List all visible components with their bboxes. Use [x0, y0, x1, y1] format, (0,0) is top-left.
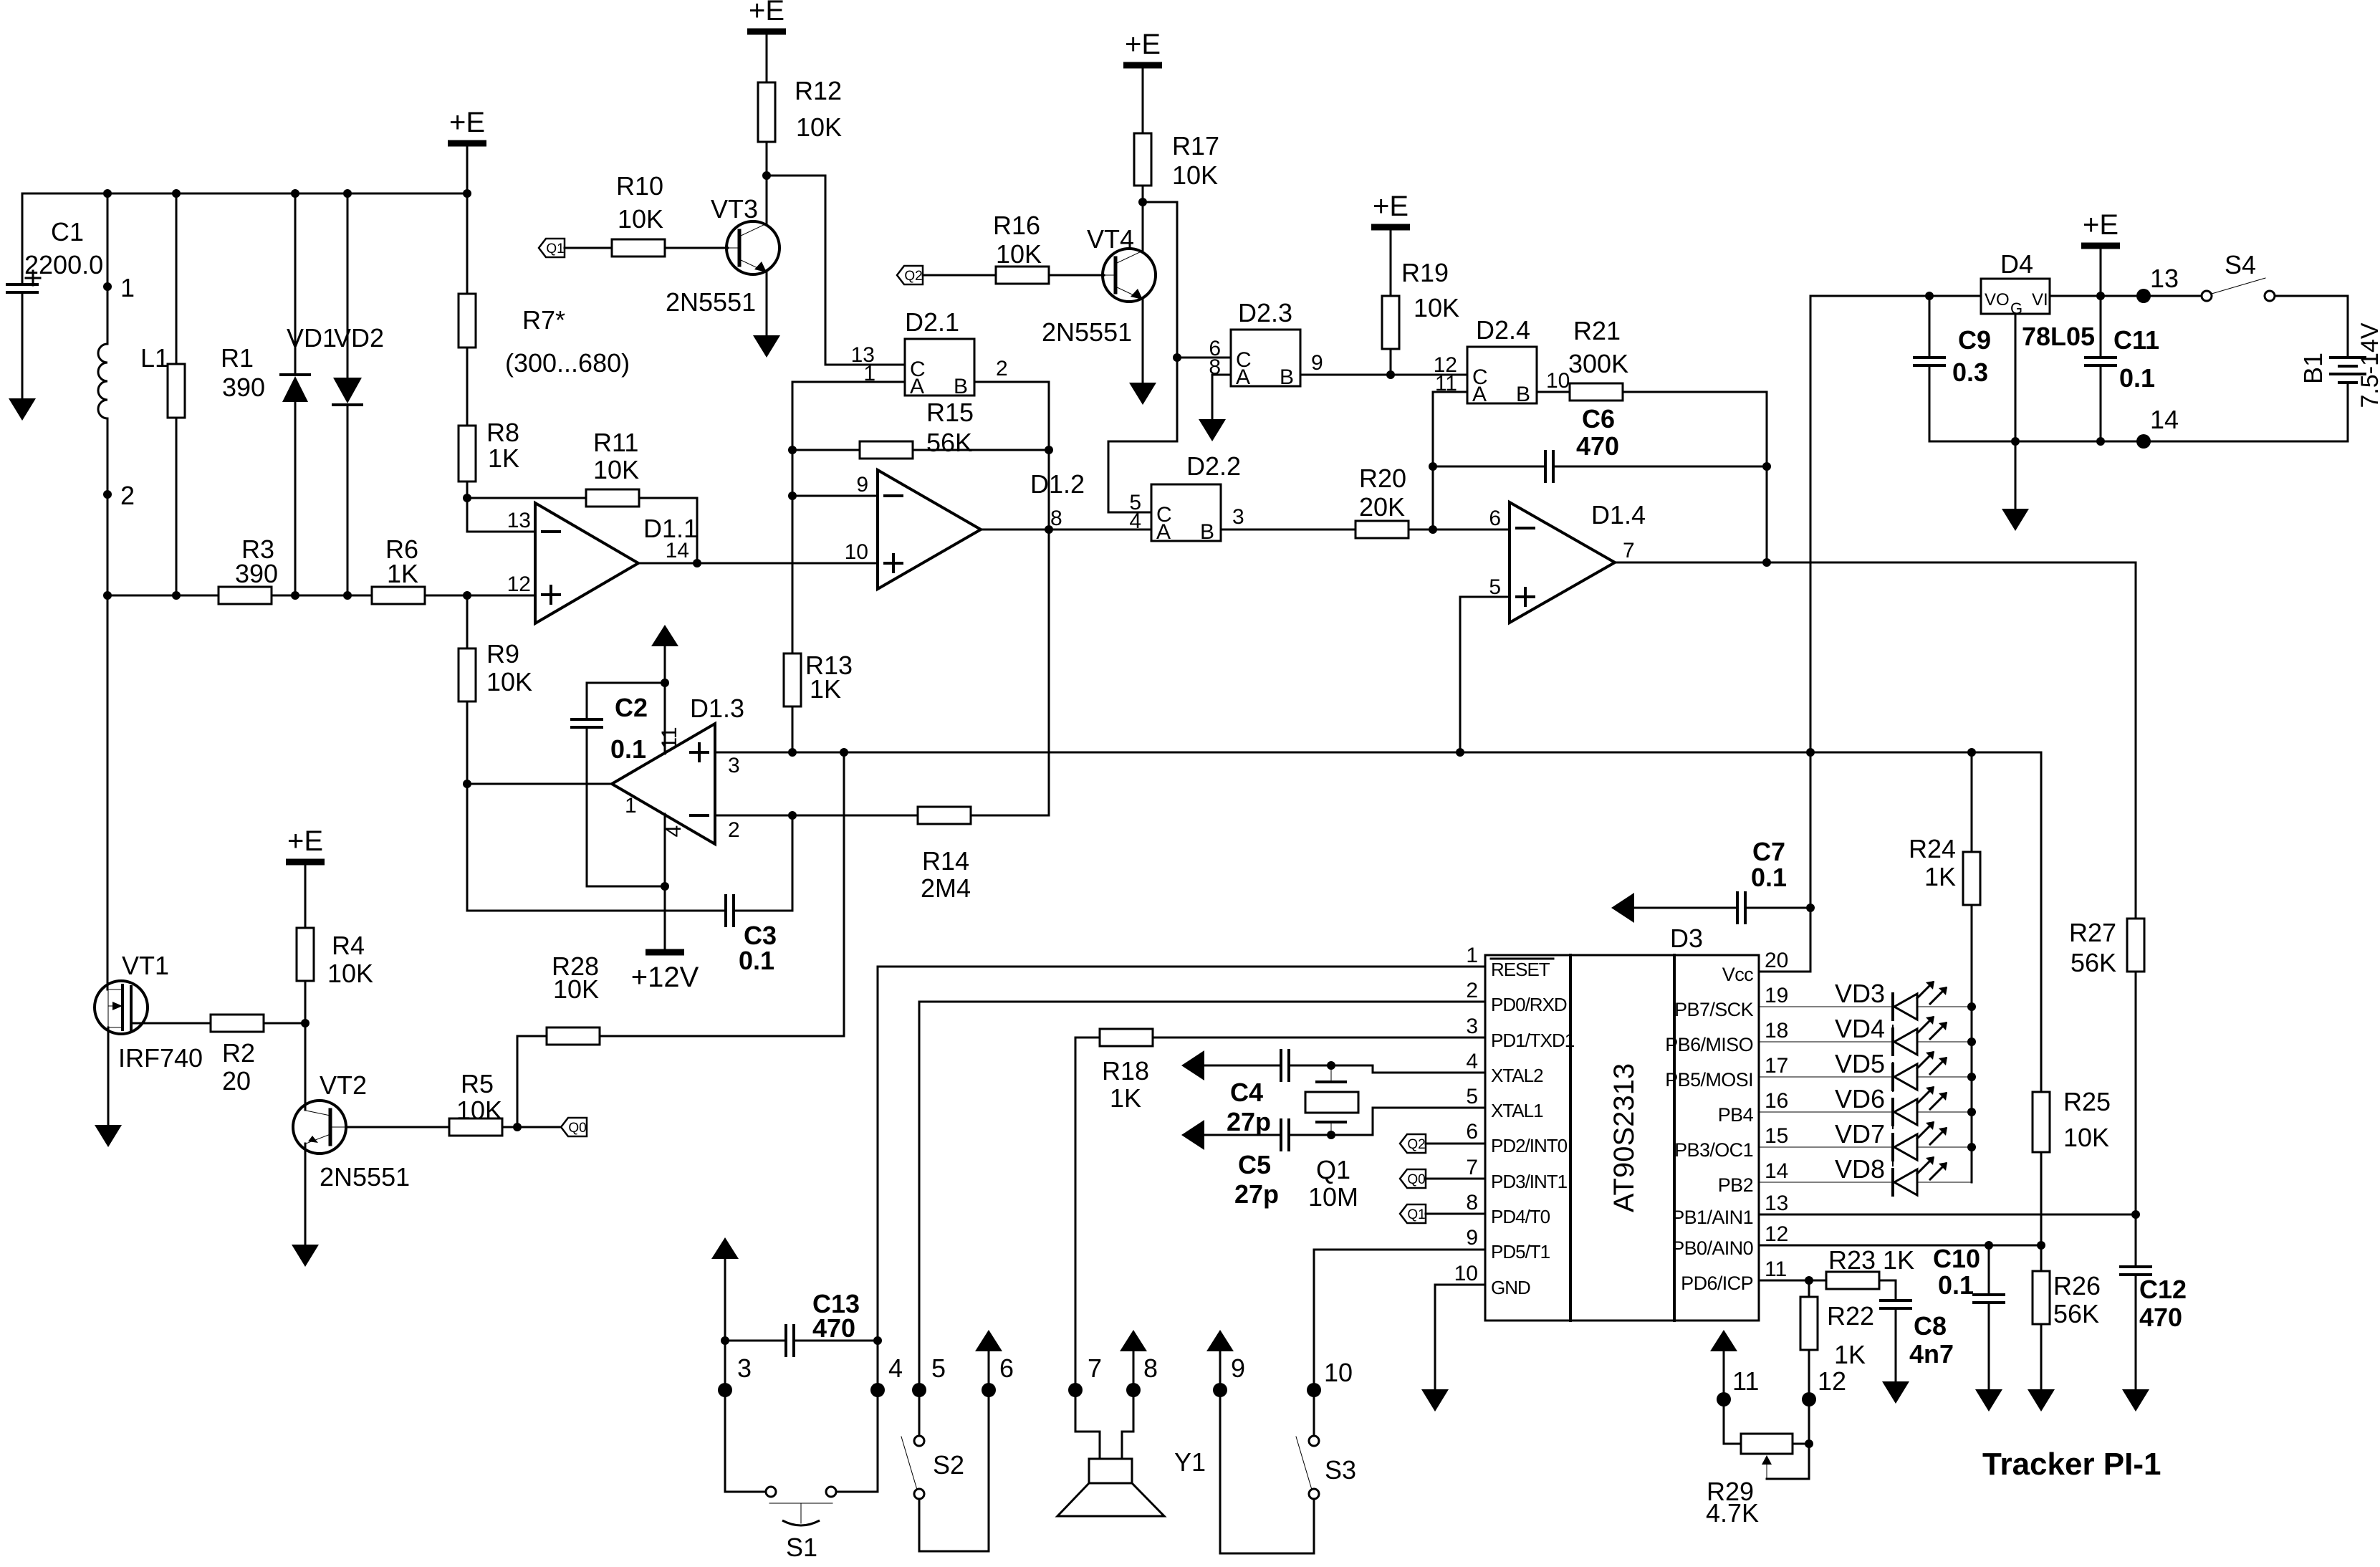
common arrow at C5 — [1181, 1120, 1204, 1150]
resistor R2 — [211, 1015, 264, 1032]
LED VD6 — [1759, 1111, 1893, 1113]
svg-text:2N5551: 2N5551 — [666, 287, 756, 317]
wire rail left — [107, 595, 219, 597]
svg-text:PD6/ICP: PD6/ICP — [1681, 1273, 1753, 1294]
switch S3 — [1309, 1436, 1319, 1446]
junction row12 R25 R26 — [2037, 1241, 2045, 1250]
svg-text:2: 2 — [120, 481, 135, 510]
svg-text:78L05: 78L05 — [2022, 322, 2095, 351]
resistor R1 — [168, 364, 185, 418]
ground under VT4 — [1129, 383, 1156, 405]
wire D3 GND to ground — [1435, 1285, 1485, 1389]
svg-text:VT3: VT3 — [711, 194, 758, 224]
wire C8 to ground — [1895, 1308, 1897, 1381]
wire D1.4 noninverting input — [1460, 597, 1510, 752]
svg-text:470: 470 — [2139, 1303, 2182, 1332]
capacitor C5 — [1280, 1120, 1282, 1150]
potentiometer R29 — [1741, 1434, 1793, 1454]
common arrow at C4 — [1181, 1050, 1204, 1080]
svg-text:D2.4: D2.4 — [1476, 315, 1530, 345]
svg-text:A: A — [910, 375, 924, 398]
junction C2 node — [661, 679, 669, 687]
svg-text:VD4: VD4 — [1835, 1014, 1885, 1043]
junction R2 R4 VT2 — [301, 1019, 310, 1027]
wire R23 to C8 — [1879, 1280, 1896, 1300]
wire C10 to ground — [1988, 1303, 1990, 1389]
junction VT4 collector — [1138, 198, 1147, 206]
power +E over R12 — [747, 29, 786, 35]
resistor R10 — [612, 239, 665, 257]
junction top rail VD1 — [291, 189, 299, 198]
power +12V — [646, 949, 684, 956]
junction rail R28 — [840, 748, 848, 757]
svg-text:B: B — [1516, 383, 1530, 406]
transistor VT3 — [726, 221, 779, 274]
junction crystal top — [1327, 1061, 1335, 1070]
wire VT4 emitter — [1142, 299, 1144, 383]
wire contact 8 — [1122, 1351, 1133, 1459]
net flag Q0 at D3 — [1400, 1169, 1426, 1188]
power +E over R19 — [1371, 224, 1410, 231]
svg-text:G: G — [2010, 299, 2022, 317]
svg-text:2M4: 2M4 — [921, 873, 971, 903]
resistor R26 — [2033, 1271, 2050, 1324]
contact 3 — [718, 1383, 732, 1397]
svg-text:R22: R22 — [1827, 1301, 1874, 1331]
svg-text:R9: R9 — [486, 639, 519, 669]
svg-text:C5: C5 — [1238, 1150, 1271, 1179]
LED chain dashed line — [1892, 1007, 1894, 1182]
wire +E to R19 — [1390, 230, 1392, 296]
svg-text:13: 13 — [507, 509, 531, 532]
wire VT3 collector to D2.1 — [767, 176, 905, 365]
analog switch D2.1 — [905, 339, 974, 396]
svg-text:4: 4 — [888, 1353, 903, 1383]
wire R11 row — [467, 497, 586, 499]
svg-text:+E: +E — [449, 107, 485, 138]
svg-text:C9: C9 — [1958, 325, 1991, 355]
LED VD4 — [1759, 1041, 1893, 1043]
transistor VT1 (MOSFET) — [95, 981, 148, 1034]
wire D1.1 output — [638, 562, 878, 565]
wire R29 wiper loop — [1767, 1444, 1809, 1479]
resistor R25 — [2033, 1092, 2050, 1152]
svg-text:20: 20 — [1765, 949, 1788, 972]
svg-text:PD1/TXD1: PD1/TXD1 — [1491, 1030, 1575, 1051]
svg-text:PB4: PB4 — [1718, 1104, 1754, 1126]
wire D2.2 output to R20 — [1221, 529, 1355, 531]
ground under C1 — [9, 398, 36, 421]
wire +E to rail — [2100, 249, 2102, 296]
wire C4 to arrow — [1204, 1065, 1281, 1067]
resistor R11 — [586, 489, 639, 507]
capacitor C1 — [7, 283, 37, 286]
svg-text:B: B — [954, 375, 968, 398]
svg-text:6: 6 — [999, 1353, 1014, 1383]
net flag Q1 at VT3 — [539, 239, 565, 257]
svg-text:C11: C11 — [2113, 325, 2159, 355]
svg-text:L1: L1 — [140, 343, 169, 373]
node 2 — [103, 490, 112, 499]
wire R26 to ground — [2040, 1324, 2043, 1389]
junction G bottom rail — [2011, 437, 2020, 446]
wire R13 bottom — [792, 706, 794, 752]
wire R7 top — [466, 193, 469, 294]
wire contact 7 to R18 — [1075, 1037, 1100, 1039]
wire R27 to PB1 row — [2135, 972, 2137, 1214]
R29 wiper arrow — [1762, 1455, 1772, 1465]
capacitor C12 — [2121, 1265, 2151, 1268]
resistor R12 — [758, 82, 775, 142]
wire C3 left — [467, 784, 726, 911]
wire contact 7 lower — [1075, 1038, 1100, 1459]
wire C2 top — [587, 683, 665, 719]
wire R3 to R6 — [272, 595, 372, 597]
C1 polarity plus sign — [26, 277, 40, 279]
svg-text:+E: +E — [1125, 29, 1161, 60]
wire D3 PB1 row — [1759, 1214, 2136, 1216]
svg-text:Tracker PI-1: Tracker PI-1 — [1982, 1447, 2161, 1482]
junction C7 — [1806, 904, 1815, 912]
resistor R20 — [1355, 521, 1409, 538]
wire junction to D2.3 pin 6 — [1177, 357, 1231, 359]
svg-text:R10: R10 — [616, 171, 663, 201]
switch S4 — [2202, 291, 2212, 301]
junction output C6 — [1762, 558, 1771, 567]
wire D2.4 output to R21 — [1537, 391, 1570, 393]
svg-text:AT90S2313: AT90S2313 — [1608, 1063, 1640, 1212]
contact 12 — [1802, 1392, 1816, 1407]
wire R16 to VT4 base — [1049, 274, 1104, 277]
svg-text:D1.3: D1.3 — [690, 694, 744, 723]
svg-text:R25: R25 — [2063, 1087, 2111, 1116]
resistor R3 — [219, 587, 272, 604]
wire node to VT2 collector — [304, 1023, 307, 1110]
wire R6 to D1.1 — [425, 595, 535, 597]
svg-text:10K: 10K — [593, 455, 639, 484]
junction rail R13 — [788, 748, 797, 757]
wire D1.2 inverting input — [792, 495, 878, 497]
wire R18 to D3 PD1 — [1153, 1037, 1485, 1039]
battery B1 — [2331, 356, 2365, 359]
resistor R7 — [459, 294, 476, 348]
common arrow at contact 6 — [975, 1330, 1002, 1351]
contact 10 — [1307, 1383, 1321, 1397]
wire VD2 bottom — [347, 405, 349, 595]
wire contact 11 — [1724, 1351, 1741, 1444]
junction D2.3 control — [1173, 353, 1181, 362]
common arrow at C7 — [1611, 893, 1634, 923]
wire R8 to D1.1 inverting input — [467, 498, 535, 532]
resistor R6 — [372, 587, 425, 604]
resistor R21 — [1570, 383, 1623, 401]
capacitor C3 — [724, 896, 727, 926]
svg-text:C8: C8 — [1914, 1311, 1947, 1341]
junction top rail VD2 — [343, 189, 352, 198]
svg-text:0.1: 0.1 — [610, 734, 646, 764]
svg-text:10K: 10K — [456, 1096, 502, 1125]
svg-text:5: 5 — [1489, 575, 1501, 599]
wire D2.3 pin 8 to ground — [1212, 375, 1231, 419]
pushbutton S1 — [766, 1487, 776, 1497]
contact 11 — [1717, 1392, 1731, 1407]
wire VT1 source to ground — [107, 1027, 110, 1125]
svg-text:7.5-14V: 7.5-14V — [2356, 322, 2380, 408]
wire contact 9 — [1220, 1351, 1314, 1553]
common arrow at contact 8 — [1120, 1330, 1147, 1351]
svg-text:PB2: PB2 — [1718, 1174, 1753, 1196]
resistor R19 — [1382, 296, 1399, 349]
wire C9 bottom — [1929, 365, 1931, 441]
transistor VT2 — [293, 1101, 346, 1154]
svg-text:VD8: VD8 — [1835, 1154, 1885, 1184]
contact 4 — [870, 1383, 885, 1397]
svg-text:R26: R26 — [2053, 1271, 2101, 1300]
wire R10 to VT3 base — [665, 247, 728, 249]
svg-text:2N5551: 2N5551 — [320, 1162, 410, 1192]
junction rail D1.4 — [1456, 748, 1464, 757]
svg-text:8: 8 — [1466, 1191, 1478, 1214]
capacitor C9 — [1914, 356, 1944, 359]
junction rail VD1 — [291, 591, 299, 600]
wire C1 branch top — [21, 193, 24, 284]
svg-text:7: 7 — [1623, 539, 1635, 562]
wire R29 right — [1793, 1443, 1809, 1445]
wire S2 bottom loop — [919, 1351, 989, 1551]
wire D3 PD0 to contact 5 — [919, 1002, 1485, 1436]
svg-text:470: 470 — [812, 1313, 855, 1343]
svg-text:C10: C10 — [1933, 1244, 1980, 1273]
wire D3 PB0 row — [1759, 1245, 2041, 1247]
svg-text:5: 5 — [931, 1353, 946, 1383]
svg-text:0.1: 0.1 — [1751, 863, 1787, 892]
resistor R23 — [1826, 1272, 1879, 1289]
wire +E to R17 — [1142, 68, 1144, 133]
svg-text:R20: R20 — [1359, 464, 1406, 493]
common arrow above D1.3 supply — [651, 625, 678, 646]
svg-text:B1: B1 — [2298, 353, 2328, 384]
transistor VT4 — [1103, 249, 1156, 302]
svg-text:18: 18 — [1765, 1019, 1788, 1043]
wire R1 bottom — [176, 418, 178, 595]
svg-text:10K: 10K — [1172, 160, 1218, 190]
svg-text:2200.0: 2200.0 — [24, 250, 103, 279]
resistor R4 — [297, 928, 314, 981]
power +E over C11 — [2081, 243, 2120, 249]
svg-text:5: 5 — [1466, 1085, 1478, 1108]
svg-text:+E: +E — [749, 0, 784, 27]
svg-text:B: B — [1200, 520, 1214, 544]
svg-text:390: 390 — [222, 373, 265, 402]
contact 9 — [1213, 1383, 1227, 1397]
svg-text:3: 3 — [1232, 505, 1244, 529]
svg-text:R12: R12 — [795, 76, 842, 105]
svg-text:10K: 10K — [327, 959, 373, 988]
svg-text:1K: 1K — [488, 444, 519, 473]
contact 7 — [1068, 1383, 1083, 1397]
wire D1.4 output — [1615, 562, 2136, 564]
svg-text:D1.2: D1.2 — [1030, 469, 1085, 499]
svg-text:4n7: 4n7 — [1909, 1339, 1954, 1369]
junction row12 C10 — [1985, 1241, 1993, 1250]
svg-text:11: 11 — [1732, 1366, 1759, 1396]
svg-text:R17: R17 — [1172, 131, 1219, 160]
wire D4 VI to S4 — [2050, 295, 2202, 297]
svg-text:XTAL2: XTAL2 — [1491, 1065, 1543, 1086]
wire R4 bottom — [304, 981, 307, 1023]
common arrow at contact 11 — [1710, 1330, 1737, 1351]
diode VD2 — [333, 378, 362, 403]
wire row12 to R26 — [2040, 1245, 2043, 1271]
junction D1.2 output — [1045, 525, 1053, 534]
svg-text:D2.1: D2.1 — [905, 307, 959, 337]
svg-text:VI: VI — [2032, 290, 2048, 310]
svg-text:C1: C1 — [51, 217, 84, 246]
wire LED anode bus — [1971, 1007, 1973, 1182]
svg-text:VD2: VD2 — [334, 323, 384, 353]
wire L1 bottom to VT1 — [107, 418, 109, 989]
net flag Q0 at VT2 — [561, 1118, 587, 1136]
net flag Q1 at D3 — [1400, 1204, 1426, 1223]
wire D1.3 pin 11 — [664, 683, 666, 754]
svg-text:D2.3: D2.3 — [1238, 298, 1292, 327]
wire R19 bottom — [1390, 349, 1392, 375]
svg-text:Q1: Q1 — [1407, 1207, 1425, 1222]
wire R24 to anode bus — [1971, 905, 1973, 1007]
svg-text:1K: 1K — [1834, 1340, 1866, 1369]
junction R5 R28 — [513, 1123, 522, 1131]
wire C11 bottom — [2100, 365, 2102, 441]
svg-text:1K: 1K — [810, 674, 841, 704]
svg-text:9: 9 — [1231, 1353, 1245, 1383]
capacitor C7 — [1736, 893, 1739, 923]
svg-text:10K: 10K — [618, 204, 663, 234]
D3 RESET overline — [1491, 958, 1553, 960]
svg-text:R23 1K: R23 1K — [1828, 1245, 1914, 1275]
junction row11 R22 — [1805, 1276, 1813, 1285]
svg-text:PB7/SCK: PB7/SCK — [1674, 999, 1753, 1020]
ground under C10 — [1975, 1389, 2002, 1412]
svg-text:1K: 1K — [387, 559, 418, 588]
svg-text:C7: C7 — [1752, 837, 1785, 866]
svg-text:S3: S3 — [1325, 1455, 1356, 1485]
wire rail to R24 — [1971, 752, 1973, 852]
svg-text:XTAL1: XTAL1 — [1491, 1100, 1543, 1121]
svg-text:VD7: VD7 — [1835, 1119, 1885, 1149]
junction C13 left — [721, 1336, 729, 1345]
junction C11 bottom — [2096, 437, 2105, 446]
inductor L1 — [98, 344, 107, 418]
wire C9 branch — [1929, 296, 1931, 358]
svg-text:R8: R8 — [486, 418, 519, 447]
svg-text:7: 7 — [1088, 1353, 1102, 1383]
svg-text:C4: C4 — [1230, 1078, 1263, 1107]
capacitor C13 — [784, 1326, 787, 1356]
wire C13 right — [794, 1340, 878, 1342]
svg-text:VT2: VT2 — [320, 1070, 367, 1100]
svg-text:13: 13 — [1765, 1192, 1788, 1215]
svg-text:PB3/OC1: PB3/OC1 — [1674, 1139, 1753, 1161]
wire C2 bottom loop — [587, 727, 665, 886]
svg-text:VD5: VD5 — [1835, 1049, 1885, 1078]
wire Q2 flag to PD2 — [1426, 1143, 1485, 1145]
svg-text:12: 12 — [507, 572, 531, 596]
wire VT4 collector to switches — [1108, 202, 1177, 512]
wire R5 to Q0 node — [502, 1126, 561, 1128]
resistor R5 — [449, 1118, 502, 1136]
svg-text:56K: 56K — [2053, 1299, 2099, 1328]
svg-text:20K: 20K — [1359, 492, 1405, 522]
svg-text:10: 10 — [1454, 1262, 1478, 1285]
wire +E to rail — [466, 146, 469, 193]
svg-text:B: B — [1280, 365, 1294, 389]
wire C12 top — [2135, 1214, 2137, 1267]
wire common rail D1.3 plus — [715, 752, 2041, 1092]
junction PB1 C12 — [2131, 1210, 2140, 1219]
wire supply arrow to C2 node — [664, 646, 666, 683]
svg-text:12: 12 — [1765, 1222, 1788, 1246]
svg-text:0.3: 0.3 — [1952, 358, 1988, 387]
svg-text:A: A — [1236, 365, 1250, 389]
wire R8 bottom — [466, 481, 469, 498]
diode VD1 — [281, 373, 310, 376]
capacitor C4 — [1280, 1050, 1282, 1080]
wire C3 right — [734, 815, 792, 911]
svg-text:A: A — [1156, 520, 1171, 544]
junction top rail R1 — [172, 189, 181, 198]
wire R28 left — [517, 1036, 547, 1127]
svg-text:PD2/INT0: PD2/INT0 — [1491, 1135, 1568, 1156]
junction rail Vcc — [1806, 748, 1815, 757]
wire VD1 top — [294, 193, 297, 373]
wire contact 4 — [835, 1341, 878, 1492]
IC D3 AT90S2313 box — [1485, 955, 1759, 1321]
junction anode bus row 1503 — [1967, 1073, 1976, 1081]
resistor R16 — [996, 267, 1049, 284]
capacitor C2 — [572, 718, 602, 721]
svg-text:A: A — [1472, 383, 1487, 406]
svg-text:R19: R19 — [1401, 258, 1449, 287]
svg-text:27p: 27p — [1234, 1179, 1279, 1209]
svg-text:VD3: VD3 — [1835, 979, 1885, 1008]
svg-text:6: 6 — [1489, 507, 1501, 530]
svg-text:S4: S4 — [2225, 250, 2256, 279]
svg-text:16: 16 — [1765, 1089, 1788, 1113]
svg-text:19: 19 — [1765, 984, 1788, 1007]
power +E over R7 — [448, 140, 486, 147]
junction rail x150 — [103, 591, 112, 600]
resistor R9 — [459, 648, 476, 701]
power +E over R4 — [286, 859, 325, 866]
svg-text:R2: R2 — [222, 1038, 255, 1068]
svg-text:VD6: VD6 — [1835, 1084, 1885, 1113]
wire D2.3 output row — [1300, 374, 1467, 376]
svg-text:D3: D3 — [1670, 924, 1703, 953]
wire C11 branch — [2100, 296, 2102, 358]
common arrow at contact 9 — [1206, 1330, 1234, 1351]
wire D2.1 pin 2 to D1.2 output node — [974, 382, 1049, 529]
junction crystal bottom — [1327, 1131, 1335, 1139]
LED VD5 — [1759, 1076, 1893, 1078]
svg-text:12: 12 — [1818, 1366, 1846, 1396]
svg-text:R24: R24 — [1909, 834, 1956, 863]
wire VT2 base to R5 — [346, 1126, 449, 1128]
svg-text:10K: 10K — [996, 239, 1042, 269]
svg-text:4: 4 — [1129, 509, 1141, 533]
svg-text:R18: R18 — [1102, 1056, 1149, 1086]
wire R22 to contact 12 — [1808, 1350, 1810, 1444]
wire top rail — [22, 193, 467, 195]
